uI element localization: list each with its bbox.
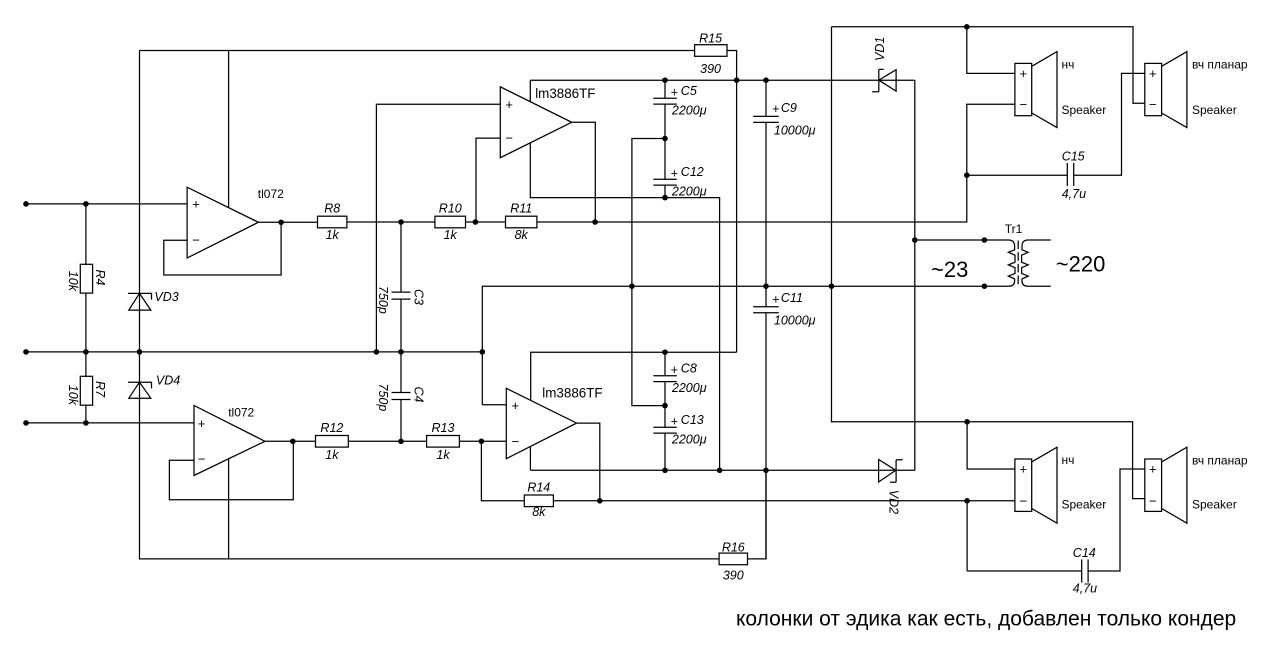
svg-text:R14: R14 <box>527 481 550 495</box>
svg-text:VD1: VD1 <box>873 37 887 61</box>
svg-text:+: + <box>505 97 513 112</box>
svg-text:~220: ~220 <box>1056 252 1106 277</box>
svg-text:R16: R16 <box>722 540 745 554</box>
svg-text:2200μ: 2200μ <box>671 432 707 446</box>
svg-text:+: + <box>772 102 779 116</box>
svg-text:+: + <box>1020 66 1028 81</box>
svg-text:−: − <box>198 452 206 467</box>
svg-text:C15: C15 <box>1062 149 1085 163</box>
svg-text:C12: C12 <box>681 165 704 179</box>
svg-text:−: − <box>1020 97 1028 112</box>
svg-text:8k: 8k <box>515 228 529 242</box>
svg-text:−: − <box>505 130 513 145</box>
svg-text:C3: C3 <box>412 289 426 305</box>
svg-text:+: + <box>198 416 206 431</box>
svg-text:R12: R12 <box>320 421 343 435</box>
svg-text:R13: R13 <box>432 421 455 435</box>
svg-text:10000μ: 10000μ <box>774 123 816 137</box>
svg-text:нч: нч <box>1062 58 1075 72</box>
svg-text:Tr1: Tr1 <box>1005 222 1023 236</box>
svg-text:tl072: tl072 <box>258 187 284 201</box>
svg-text:+: + <box>1149 66 1157 81</box>
svg-text:1k: 1k <box>444 228 458 242</box>
svg-text:1k: 1k <box>326 228 340 242</box>
svg-text:C5: C5 <box>681 84 697 98</box>
svg-text:390: 390 <box>723 569 744 583</box>
svg-text:C11: C11 <box>781 291 803 305</box>
svg-text:R4: R4 <box>93 270 107 286</box>
svg-text:+: + <box>772 292 779 306</box>
svg-text:VD4: VD4 <box>156 373 180 387</box>
svg-text:+: + <box>512 398 520 413</box>
svg-text:1k: 1k <box>325 448 339 462</box>
svg-text:10000μ: 10000μ <box>774 314 816 328</box>
svg-text:~23: ~23 <box>931 257 968 282</box>
svg-text:−: − <box>192 233 200 248</box>
svg-text:390: 390 <box>700 62 721 76</box>
svg-text:2200μ: 2200μ <box>671 381 707 395</box>
svg-text:+: + <box>1020 462 1028 477</box>
svg-text:нч: нч <box>1062 453 1075 467</box>
svg-text:2200μ: 2200μ <box>671 103 707 117</box>
svg-text:+: + <box>1149 462 1157 477</box>
svg-text:4,7u: 4,7u <box>1073 582 1097 596</box>
svg-text:C13: C13 <box>681 413 704 427</box>
svg-text:Speaker: Speaker <box>1062 103 1107 117</box>
svg-text:−: − <box>512 434 520 449</box>
svg-text:C9: C9 <box>781 101 797 115</box>
svg-text:10k: 10k <box>66 271 80 292</box>
svg-text:+: + <box>671 415 678 429</box>
svg-text:2200μ: 2200μ <box>671 184 707 198</box>
svg-text:750p: 750p <box>376 384 390 412</box>
svg-text:R8: R8 <box>324 202 340 216</box>
svg-text:Speaker: Speaker <box>1192 498 1237 512</box>
svg-text:tl072: tl072 <box>228 405 254 419</box>
svg-text:VD3: VD3 <box>154 290 178 304</box>
svg-text:−: − <box>1149 493 1157 508</box>
svg-text:C4: C4 <box>412 387 426 403</box>
svg-text:R15: R15 <box>699 32 722 46</box>
svg-text:4,7u: 4,7u <box>1062 187 1086 201</box>
svg-text:R10: R10 <box>439 202 462 216</box>
svg-text:R11: R11 <box>510 202 532 216</box>
svg-text:+: + <box>671 86 678 100</box>
svg-text:10k: 10k <box>66 385 80 406</box>
svg-text:C8: C8 <box>681 361 697 375</box>
svg-text:вч планар: вч планар <box>1192 453 1248 467</box>
svg-text:1k: 1k <box>436 448 450 462</box>
svg-text:8k: 8k <box>532 505 546 519</box>
svg-text:Speaker: Speaker <box>1062 498 1107 512</box>
svg-text:lm3886TF: lm3886TF <box>535 86 595 101</box>
svg-text:lm3886TF: lm3886TF <box>542 385 602 400</box>
svg-text:C14: C14 <box>1073 546 1096 560</box>
svg-text:+: + <box>671 167 678 181</box>
svg-text:750p: 750p <box>376 286 390 314</box>
svg-text:−: − <box>1149 97 1157 112</box>
svg-text:вч планар: вч планар <box>1192 58 1248 72</box>
svg-text:−: − <box>1020 493 1028 508</box>
svg-text:колонки от эдика как есть, доб: колонки от эдика как есть, добавлен толь… <box>736 608 1236 631</box>
svg-text:VD2: VD2 <box>887 490 901 514</box>
svg-text:+: + <box>192 197 200 212</box>
svg-text:+: + <box>671 363 678 377</box>
svg-text:R7: R7 <box>93 381 107 398</box>
svg-text:Speaker: Speaker <box>1192 103 1237 117</box>
